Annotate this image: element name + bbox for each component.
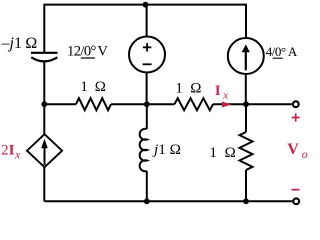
svg-text:2I: 2I <box>1 141 15 158</box>
svg-text:4/0°A: 4/0°A <box>266 44 298 59</box>
svg-text:x: x <box>14 148 21 162</box>
svg-text:j1 Ω: j1 Ω <box>152 141 181 158</box>
svg-text:1Ω: 1Ω <box>175 81 201 97</box>
svg-text:V: V <box>287 141 299 158</box>
svg-text:1Ω: 1Ω <box>80 79 105 95</box>
svg-text:x: x <box>222 90 228 102</box>
svg-text:o: o <box>302 147 308 161</box>
svg-text:1Ω: 1Ω <box>209 145 235 161</box>
svg-text:I: I <box>215 83 221 99</box>
svg-text:–j1Ω: –j1Ω <box>1 35 38 52</box>
svg-text:12/0°V: 12/0°V <box>67 44 108 60</box>
